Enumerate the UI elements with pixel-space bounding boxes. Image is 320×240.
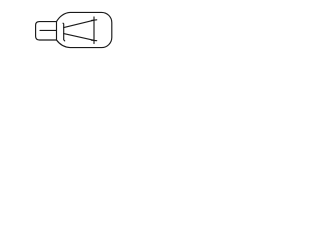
glass envelope outline [57,12,112,47]
pinch seal post [63,23,65,41]
wedge base outline [36,22,57,40]
upper filament tick [91,19,96,22]
base slot line [40,29,56,31]
upper lead wire [64,20,94,27]
lower lead wire [64,34,94,41]
filament post [93,17,95,44]
bulb pictogram (wedge-base automotive bulb) [0,0,150,60]
lower filament tick [91,39,96,42]
